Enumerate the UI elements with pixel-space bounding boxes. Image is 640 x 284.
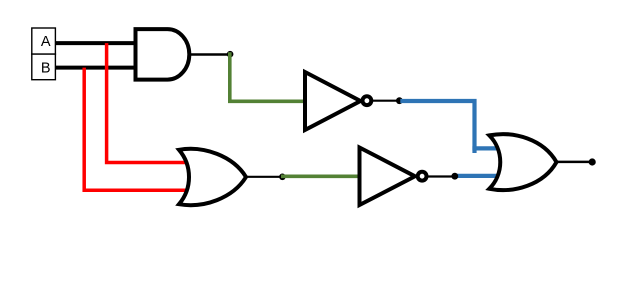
OR gate U5 (output) [489,134,556,190]
wire OR2 output [555,161,590,164]
wire blue from NOT1 to OR2 upper input [400,101,474,153]
wire OR1 output [245,176,283,178]
svg-text:A: A [41,34,51,50]
NOT gate U2 (top inverter) [305,72,361,130]
svg-text:B: B [41,61,51,77]
OR gate U3 (lower left) [179,149,246,205]
input box A [32,28,56,54]
node dot NOT1 output [396,97,403,104]
wire NOT1 output [372,100,399,102]
wire AND output [189,53,230,55]
wire green from OR1 junction to NOT2 input [281,175,362,179]
input box B [32,54,56,80]
bubble of NOT gate U2 [363,96,372,105]
wire red branch from B to OR1 lower input [84,68,188,191]
junction dot OR1 output [279,174,286,181]
junction dot AND output [227,51,234,58]
wire input B [55,66,137,70]
wire input A [55,41,137,45]
wire blue stub into OR2 upper input [472,146,497,150]
node dot NOT2 output [451,173,458,180]
AND gate U1 [136,29,190,80]
output dot [589,158,596,165]
NOT gate U4 (lower inverter) [360,148,416,206]
bubble of NOT gate U4 [418,172,427,181]
wire NOT2 output [427,175,498,177]
wire green from AND junction to NOT1 input [230,52,307,101]
wire red branch from A to OR1 upper input [107,43,188,162]
wire blue from NOT2 to OR2 lower input [456,174,497,178]
